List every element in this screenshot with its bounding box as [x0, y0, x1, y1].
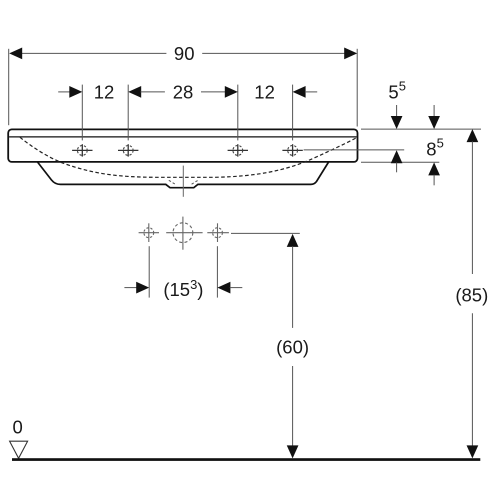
washbasin inner rim line [9, 136, 357, 138]
reference line slab bottom (C) [361, 161, 439, 163]
extension line tap hole 2 [127, 85, 129, 141]
dimension 8.5 down arrow stem [433, 105, 435, 117]
washbasin bowl underside [37, 162, 328, 188]
dimension 12b tail [305, 91, 317, 93]
dimension 15.3 right tail [230, 287, 243, 289]
svg-text:90: 90 [174, 43, 195, 64]
extension line tap hole 4 [292, 85, 294, 141]
dimension 90 line [22, 52, 167, 54]
dimension 5.5 down arrow [391, 116, 403, 129]
dimension 28 left arrow [128, 86, 141, 98]
dimension 12b arrow [293, 86, 306, 98]
drain centre line [182, 166, 184, 197]
reference line tap level (B) [304, 149, 405, 151]
dimension (85) upper stem [471, 141, 473, 274]
dimension 12 left arrow [69, 86, 82, 98]
tap hole cross 1 [72, 144, 92, 156]
dimension (85) top arrow [467, 129, 479, 142]
dimension 90 right arrow [344, 48, 357, 60]
dimension (60) lower stem [292, 366, 294, 447]
hidden bowl contour (dashed) [20, 137, 357, 177]
dimension (85) lower stem [471, 313, 473, 446]
datum triangle [10, 441, 28, 458]
dimension 28 left line [141, 91, 165, 93]
dimension 15.3 left arrow [136, 282, 149, 294]
dimension 5.5 up arrow [391, 150, 403, 163]
svg-text:12: 12 [94, 82, 115, 103]
extension line right (90) [356, 49, 358, 127]
dimension (60) bottom arrow [287, 445, 299, 458]
dimension 15.3 right arrow [217, 282, 230, 294]
dimension 15.3 left tail [124, 287, 138, 289]
svg-text:(85): (85) [455, 285, 488, 306]
svg-text:28: 28 [173, 82, 194, 103]
extension line drain right [216, 246, 218, 297]
svg-text:12: 12 [254, 82, 275, 103]
tap hole cross 4 [282, 144, 302, 156]
drain hole cross left [139, 223, 159, 242]
extension line tap hole 3 [237, 85, 239, 141]
floor line [12, 458, 480, 461]
tap hole cross 3 [228, 144, 248, 156]
drain level line to (60) [231, 232, 300, 234]
dimension 5.5 up arrow stem [396, 163, 398, 173]
dimension 90 left arrow [9, 48, 22, 60]
tap hole cross 2 [118, 144, 138, 156]
dimension 12 left tail [58, 91, 70, 93]
dimension 8.5 up arrow [428, 162, 440, 175]
svg-text:0: 0 [12, 417, 22, 438]
reference line top edge (A) [361, 128, 481, 130]
washbasin outer outline [8, 129, 357, 162]
dimension 8.5 up arrow stem [433, 175, 435, 186]
dimension (60) upper stem [292, 246, 294, 328]
dimension 5.5 down arrow stem [396, 105, 398, 117]
dimension 28 right line [201, 91, 226, 93]
svg-text:(153): (153) [163, 277, 203, 300]
drain hole cross right [207, 223, 229, 242]
drain recess hidden edges (dashed) [169, 180, 198, 184]
dimension 8.5 down arrow [428, 116, 440, 129]
dimension 28 right arrow [225, 86, 238, 98]
extension line tap hole 1 [81, 85, 83, 141]
drain hole cross middle [166, 217, 202, 250]
svg-text:(60): (60) [276, 336, 309, 357]
extension line drain left [148, 246, 150, 297]
dimension (60) top arrow [287, 234, 299, 247]
dimension (85) bottom arrow [467, 445, 479, 458]
extension line left (90) [8, 49, 10, 125]
